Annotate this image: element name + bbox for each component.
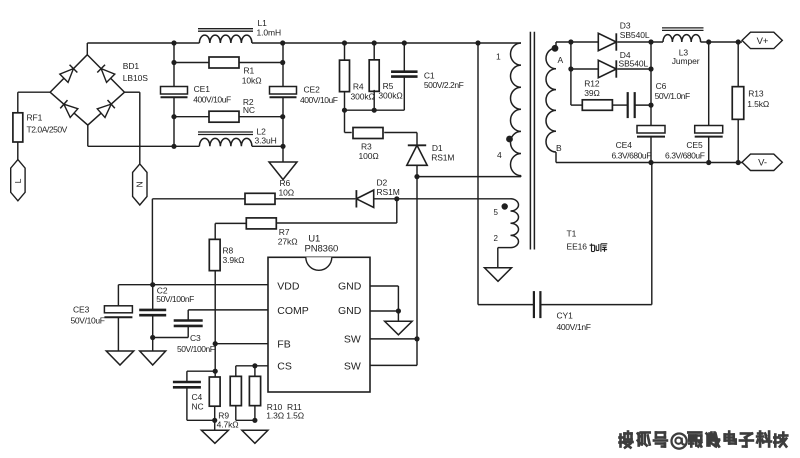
svg-text:R5: R5: [383, 81, 394, 91]
node dot sec rail/D4 branch: [568, 39, 573, 44]
inductor L1: [198, 18, 281, 43]
connector V- (output flag): [742, 154, 782, 170]
op-amp U1 PN8360 body: [268, 234, 370, 393]
node dot rail/primary: [475, 40, 480, 45]
capacitor CE1: [161, 43, 231, 146]
wire +DC top rail: [87, 42, 478, 44]
svg-text:CE5: CE5: [686, 140, 703, 150]
node dot CS/R11: [252, 363, 257, 368]
diode D3 SB540L: [598, 21, 650, 51]
node dot GND pins: [396, 308, 401, 313]
svg-text:50V/100nF: 50V/100nF: [177, 344, 215, 354]
node dot SW: [414, 336, 419, 341]
svg-text:50V/10uF: 50V/10uF: [71, 316, 105, 326]
svg-text:10kΩ: 10kΩ: [242, 76, 262, 86]
node dot R1-right: [280, 60, 285, 65]
svg-text:VDD: VDD: [277, 281, 300, 293]
capacitor C1: [391, 43, 464, 110]
ground (CE3): [106, 351, 134, 365]
bridge diode BD1-a (left-top edge): [60, 65, 78, 83]
ground (R9/C4): [201, 430, 228, 443]
wire CS row: [236, 365, 268, 367]
wire GND pin1: [370, 286, 398, 311]
svg-text:4.7kΩ: 4.7kΩ: [217, 419, 239, 429]
svg-text:CE3: CE3: [73, 305, 90, 315]
wire COMP row: [188, 309, 268, 311]
svg-text:BD1: BD1: [123, 61, 140, 71]
bridge diode BD1-b (right-top edge): [97, 65, 115, 83]
diode D4 SB540L: [598, 50, 651, 78]
resistor R13: [732, 42, 769, 163]
svg-text:FB: FB: [277, 338, 290, 350]
node dot R4-bottom: [342, 108, 347, 113]
wire R6 feed drop: [151, 199, 153, 285]
node dot D3 cathode: [648, 39, 653, 44]
resistor R3: [345, 110, 418, 161]
phase dot secondary: [552, 45, 559, 52]
svg-text:RS1M: RS1M: [431, 153, 454, 163]
svg-text:R7: R7: [279, 227, 290, 237]
svg-text:1: 1: [496, 52, 501, 62]
svg-text:SW: SW: [344, 360, 361, 372]
wire bridge bottom to -rail: [87, 125, 89, 146]
capacitor C2: [139, 285, 194, 338]
svg-text:EE16: EE16: [567, 242, 588, 252]
label T1: [567, 229, 577, 239]
wire L-to-RF1: [17, 142, 19, 160]
wire sec rectified node: [650, 42, 652, 126]
watermark sohu text: [620, 432, 788, 449]
resistor R11: [249, 366, 304, 421]
svg-text:1.3Ω: 1.3Ω: [266, 410, 284, 420]
transformer T1 aux winding (pins 5-2): [397, 199, 519, 268]
resistor R2: [174, 97, 283, 122]
node dot VDD/C2: [150, 282, 155, 287]
wire RF1-to-bridge: [18, 92, 50, 113]
svg-text:C3: C3: [190, 333, 201, 343]
fuse RF1: [13, 113, 68, 143]
wire SW pin2: [370, 339, 417, 366]
svg-text:50V/1.0nF: 50V/1.0nF: [655, 91, 690, 101]
svg-text:A: A: [558, 55, 564, 65]
node dot R5-bottom: [372, 108, 377, 113]
svg-text:CE1: CE1: [194, 84, 211, 94]
svg-text:CS: CS: [277, 361, 292, 373]
node dot R2-left: [171, 114, 176, 119]
wire primary pin4 row: [417, 176, 521, 178]
wire GND pin2: [370, 310, 398, 312]
node dot R11 bottom: [252, 418, 257, 423]
svg-text:L1: L1: [258, 18, 268, 28]
capacitor C6: [628, 81, 690, 118]
node dot rail/R4: [342, 40, 347, 45]
svg-text:1.5Ω: 1.5Ω: [286, 410, 304, 420]
svg-text:R13: R13: [748, 89, 764, 99]
svg-text:PN8360: PN8360: [305, 244, 339, 255]
svg-text:27kΩ: 27kΩ: [278, 237, 298, 247]
svg-text:T2.0A/250V: T2.0A/250V: [27, 125, 68, 135]
transformer T1 core: [530, 32, 534, 250]
node dot D1/SW/pin4: [414, 174, 419, 179]
wire secondary bottom rail: [556, 162, 742, 164]
connector N (neutral input flag): [133, 92, 147, 205]
svg-text:400V/1nF: 400V/1nF: [557, 322, 591, 332]
svg-text:6.3V/680uF: 6.3V/680uF: [612, 150, 652, 160]
wire GND to ground: [397, 311, 399, 321]
svg-text:C6: C6: [656, 81, 667, 91]
svg-text:50V/100nF: 50V/100nF: [156, 294, 194, 304]
node dot R1-left: [171, 60, 176, 65]
inductor L3: [662, 28, 711, 66]
bridge diode BD1-d (bottom-right edge): [97, 100, 115, 117]
svg-text:3.9kΩ: 3.9kΩ: [223, 255, 245, 265]
svg-text:B: B: [556, 143, 562, 153]
capacitor CE3: [71, 285, 133, 351]
node dot rail/CE2-top: [280, 40, 285, 45]
svg-text:4: 4: [497, 150, 502, 160]
resistor R7: [215, 199, 397, 247]
svg-text:400V/10uF: 400V/10uF: [193, 95, 231, 105]
diode D1 RS1M: [407, 133, 455, 177]
node dot C6/CE4: [648, 103, 653, 108]
resistor R4: [340, 43, 375, 110]
resistor R8: [209, 223, 244, 343]
svg-text:CY1: CY1: [557, 311, 574, 321]
svg-text:GND: GND: [338, 305, 362, 317]
wire FB row: [215, 343, 268, 345]
svg-text:R12: R12: [584, 79, 600, 89]
wire D4 branch: [571, 42, 598, 69]
phase dot aux winding: [502, 203, 508, 209]
resistor R10: [230, 366, 284, 421]
svg-text:RS1M: RS1M: [377, 187, 400, 197]
svg-text:T1: T1: [567, 229, 577, 239]
svg-text:1.0mH: 1.0mH: [257, 28, 282, 38]
node dot rail-bottom/CE1: [171, 144, 176, 149]
svg-text:SB540L: SB540L: [620, 30, 650, 40]
svg-text:C1: C1: [424, 71, 435, 81]
capacitor CE4: [612, 126, 666, 163]
wire primary-rail drop to CY1: [477, 43, 479, 305]
transformer T1 secondary winding (A-B): [546, 42, 564, 163]
svg-text:400V/10uF: 400V/10uF: [300, 95, 338, 105]
node dot L3/R13: [736, 39, 741, 44]
connector L (line input flag): [11, 160, 25, 201]
svg-text:5: 5: [494, 208, 499, 217]
svg-text:V+: V+: [757, 36, 769, 47]
svg-text:2: 2: [494, 234, 499, 243]
resistor R5: [369, 43, 402, 110]
node dot C4 top: [213, 369, 218, 374]
transformer T1 primary winding (pins 1-4): [478, 43, 521, 177]
svg-text:10Ω: 10Ω: [279, 187, 295, 197]
ground (aux winding): [485, 268, 512, 282]
wire R10-R11 bottoms: [236, 419, 255, 421]
wire C2 to ground: [152, 338, 154, 352]
connector V+ (output flag): [742, 32, 782, 48]
resistor R1: [174, 57, 283, 86]
resistor R9: [209, 344, 238, 431]
node dot R9 bottom: [212, 418, 217, 423]
capacitor CE5: [665, 42, 723, 163]
node dot rail/C1: [402, 40, 407, 45]
wire -DC bottom rail: [88, 145, 283, 147]
svg-text:3.3uH: 3.3uH: [255, 136, 277, 146]
node dot C2/C3 gnd: [150, 335, 155, 340]
node dot D4 anode: [568, 66, 573, 71]
svg-text:39Ω: 39Ω: [584, 88, 600, 98]
node dot rail/R5: [372, 40, 377, 45]
svg-text:CE2: CE2: [304, 85, 321, 95]
svg-text:500V/2.2nF: 500V/2.2nF: [424, 80, 464, 90]
bridge rectifier BD1 outline: [50, 55, 124, 125]
inductor L2: [198, 127, 277, 147]
diode D2 RS1M: [356, 178, 399, 208]
node dot CE4 bottom: [648, 160, 653, 165]
bridge diode BD1-c (bottom-left edge): [60, 100, 78, 117]
node dot R13 bottom: [736, 160, 741, 165]
label T1 value EE16(CJK): [567, 242, 608, 252]
svg-text:SW: SW: [344, 334, 361, 346]
wire SW node vertical: [416, 177, 418, 339]
svg-text:100Ω: 100Ω: [359, 151, 379, 161]
svg-text:R1: R1: [244, 66, 255, 76]
node dot rail/CE1-top: [171, 40, 176, 45]
svg-text:LB10S: LB10S: [123, 73, 148, 83]
capacitor CE2: [270, 43, 338, 146]
svg-text:RF1: RF1: [27, 113, 43, 123]
node dot D4 cathode: [648, 66, 653, 71]
svg-text:V-: V-: [758, 158, 767, 169]
svg-text:D1: D1: [432, 143, 443, 153]
svg-text:COMP: COMP: [277, 305, 309, 317]
wire R12 branch: [571, 69, 582, 105]
svg-text:CE4: CE4: [616, 140, 633, 150]
wire SW pin1: [370, 338, 417, 340]
svg-text:SB540L: SB540L: [619, 59, 649, 69]
ground (primary bulk): [269, 162, 297, 180]
node dot R2-right: [280, 114, 285, 119]
ground (U1 GND): [385, 321, 413, 335]
svg-text:R8: R8: [223, 246, 234, 256]
node dot FB/R8-R9: [213, 341, 218, 346]
node dot D2/R7 node: [394, 196, 399, 201]
wire snubber bottom row: [345, 109, 405, 111]
svg-text:6.3V/680uF: 6.3V/680uF: [665, 150, 705, 160]
svg-text:C4: C4: [192, 392, 203, 402]
svg-text:Jumper: Jumper: [672, 56, 700, 66]
label BD1: [123, 61, 148, 83]
node dot CE5 bottom: [706, 160, 711, 165]
svg-text:R3: R3: [361, 142, 372, 152]
node dot rail-bottom/L2-CE2: [280, 144, 285, 149]
svg-text:NC: NC: [243, 105, 255, 115]
capacitor C3: [153, 310, 215, 354]
svg-text:L: L: [13, 178, 23, 183]
resistor R12: [582, 79, 627, 111]
wire CY1 to secondary gnd: [651, 163, 653, 305]
phase dot primary: [506, 136, 513, 143]
svg-text:300kΩ: 300kΩ: [378, 91, 402, 101]
svg-text:300kΩ: 300kΩ: [351, 92, 375, 102]
wire bridge right to N: [125, 91, 140, 93]
resistor R6: [152, 178, 355, 204]
wire L2-right down: [282, 146, 284, 162]
wire secondary top rail: [556, 41, 742, 43]
ground (R10/R11): [242, 430, 268, 443]
svg-text:N: N: [135, 181, 145, 187]
capacitor CY1: [478, 291, 652, 332]
wire bridge top to +rail: [86, 43, 88, 55]
svg-text:1.5kΩ: 1.5kΩ: [747, 99, 769, 109]
svg-text:GND: GND: [338, 281, 362, 293]
svg-text:NC: NC: [192, 402, 204, 412]
ground (C2/C3): [140, 351, 166, 365]
capacitor C4 (NC): [173, 371, 215, 420]
svg-text:R4: R4: [353, 82, 364, 92]
wire VDD row: [118, 284, 268, 286]
